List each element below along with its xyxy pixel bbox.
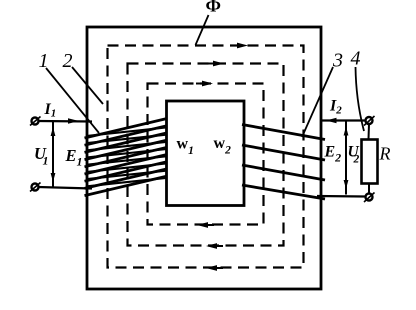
svg-text:R: R	[379, 144, 391, 164]
svg-text:I1: I1	[44, 101, 57, 120]
svg-text:1: 1	[39, 50, 49, 72]
svg-text:I2: I2	[329, 98, 342, 117]
svg-text:2: 2	[353, 154, 360, 166]
svg-text:1: 1	[43, 154, 49, 168]
svg-text:3: 3	[332, 50, 343, 72]
svg-text:Ф: Ф	[206, 0, 221, 16]
svg-text:E2: E2	[324, 144, 342, 165]
svg-text:E1: E1	[65, 146, 83, 169]
svg-text:2: 2	[63, 50, 73, 72]
svg-text:4: 4	[351, 48, 361, 70]
